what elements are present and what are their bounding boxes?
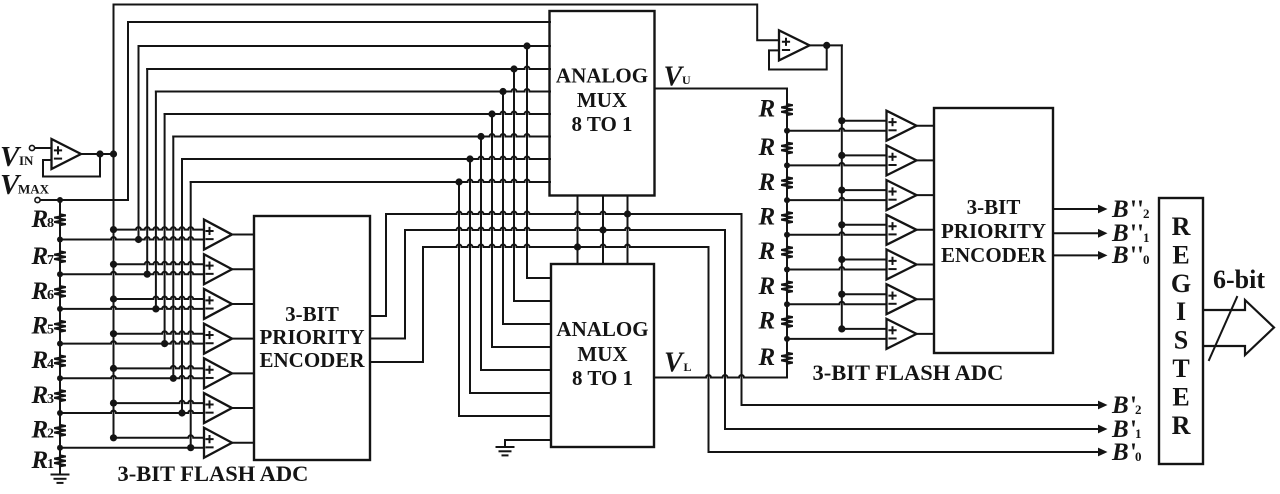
- svg-text:PRIORITY: PRIORITY: [941, 219, 1046, 243]
- svg-text:S: S: [1174, 326, 1188, 355]
- svg-text:U: U: [682, 73, 691, 87]
- svg-text:MAX: MAX: [18, 182, 50, 197]
- svg-text:I: I: [1176, 297, 1186, 326]
- svg-text:6-bit: 6-bit: [1213, 265, 1265, 294]
- svg-text:B: B: [1111, 439, 1129, 466]
- svg-text:'': '': [1130, 196, 1144, 223]
- svg-text:T: T: [1172, 354, 1189, 383]
- svg-text:3-BIT: 3-BIT: [285, 302, 339, 326]
- svg-text:R: R: [31, 312, 49, 339]
- svg-text:R: R: [758, 203, 776, 230]
- svg-text:IN: IN: [19, 153, 34, 168]
- svg-text:R: R: [758, 238, 776, 265]
- svg-text:R: R: [1172, 411, 1191, 440]
- svg-text:R: R: [758, 96, 776, 123]
- svg-text:3-BIT FLASH ADC: 3-BIT FLASH ADC: [118, 461, 309, 486]
- svg-text:8 TO 1: 8 TO 1: [572, 366, 633, 390]
- svg-text:8: 8: [47, 216, 54, 231]
- svg-text:6: 6: [47, 288, 54, 303]
- svg-text:L: L: [684, 360, 692, 374]
- svg-text:0: 0: [1135, 449, 1142, 464]
- svg-text:ANALOG: ANALOG: [556, 317, 648, 341]
- svg-text:R: R: [31, 447, 49, 474]
- svg-text:ENCODER: ENCODER: [941, 243, 1047, 267]
- svg-text:R: R: [758, 273, 776, 300]
- svg-text:R: R: [31, 243, 49, 270]
- svg-text:E: E: [1172, 382, 1189, 411]
- svg-text:4: 4: [47, 357, 54, 372]
- svg-text:ANALOG: ANALOG: [556, 63, 648, 87]
- svg-text:R: R: [1172, 212, 1191, 241]
- svg-text:R: R: [758, 308, 776, 335]
- svg-text:B: B: [1111, 242, 1129, 269]
- svg-text:7: 7: [47, 253, 54, 268]
- svg-text:V: V: [664, 348, 685, 379]
- svg-text:2: 2: [47, 427, 54, 442]
- svg-text:3-BIT: 3-BIT: [967, 195, 1021, 219]
- svg-text:ENCODER: ENCODER: [259, 348, 365, 372]
- svg-text:B: B: [1111, 392, 1129, 419]
- svg-text:3-BIT FLASH ADC: 3-BIT FLASH ADC: [813, 360, 1004, 385]
- svg-text:R: R: [31, 382, 49, 409]
- svg-text:B: B: [1111, 196, 1129, 223]
- svg-text:3: 3: [47, 392, 54, 407]
- svg-text:2: 2: [1143, 206, 1150, 221]
- svg-text:R: R: [31, 206, 49, 233]
- svg-text:5: 5: [47, 322, 54, 337]
- svg-text:2: 2: [1135, 402, 1142, 417]
- svg-text:R: R: [758, 134, 776, 161]
- svg-text:R: R: [31, 278, 49, 305]
- svg-text:1: 1: [47, 457, 54, 472]
- svg-text:PRIORITY: PRIORITY: [259, 325, 364, 349]
- svg-text:MUX: MUX: [577, 342, 627, 366]
- svg-text:E: E: [1172, 240, 1189, 269]
- svg-text:R: R: [31, 347, 49, 374]
- svg-text:G: G: [1171, 269, 1191, 298]
- svg-text:MUX: MUX: [577, 88, 627, 112]
- svg-text:0: 0: [1143, 252, 1150, 267]
- svg-text:R: R: [758, 344, 776, 371]
- svg-text:'': '': [1130, 242, 1144, 269]
- svg-text:R: R: [758, 169, 776, 196]
- svg-text:8 TO 1: 8 TO 1: [571, 112, 632, 136]
- svg-text:R: R: [31, 417, 49, 444]
- svg-text:1: 1: [1143, 230, 1150, 245]
